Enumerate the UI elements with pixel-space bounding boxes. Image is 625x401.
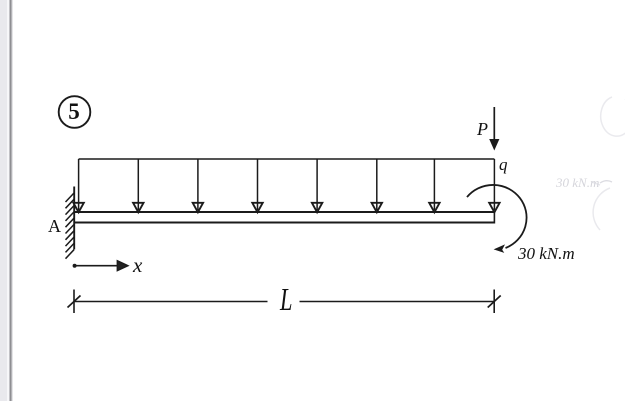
svg-text:30 kN.m: 30 kN.m xyxy=(555,175,599,190)
